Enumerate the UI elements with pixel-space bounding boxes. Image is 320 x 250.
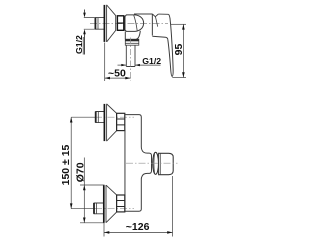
- outlet thread collar: [125, 39, 139, 45]
- lever top edge: [158, 13, 168, 15]
- 95 dimension: [172, 77, 186, 79]
- svg-text:95: 95: [173, 44, 185, 56]
- 150 +/- 15 dimension: [70, 117, 72, 209]
- centerline of inlet axis: [90, 23, 168, 25]
- mixer body (cartridge dome, side view): [125, 15, 144, 32]
- ~126 dimension: [104, 176, 173, 237]
- G1/2 outlet label and arrows: [118, 64, 127, 66]
- escutcheon (wall rosette, side view): [103, 5, 105, 42]
- outlet elbow below body: [124, 31, 126, 39]
- handle cap top edge: [134, 13, 152, 15]
- svg-text:G1/2: G1/2: [74, 35, 84, 54]
- G1/2 lower arrow: [84, 34, 86, 55]
- cartridge housing (plan, rounded block): [142, 150, 152, 177]
- handle cap (plan): [159, 153, 174, 174]
- handle hub bottom: [152, 36, 167, 39]
- extension line top (95 dim): [171, 23, 186, 25]
- swivel ring (ellipse): [153, 152, 159, 174]
- diameter 70 dimension: [80, 185, 105, 223]
- svg-text:G1/2: G1/2: [142, 56, 161, 66]
- bottom inlet pipe: [94, 203, 104, 214]
- body bar: [125, 115, 142, 150]
- hex nut: [117, 16, 123, 30]
- svg-text:~126: ~126: [126, 221, 150, 233]
- ~50 dimension: [104, 43, 106, 82]
- outlet centerline: [130, 38, 132, 81]
- lever blade: [168, 14, 173, 76]
- top inlet centerline: [71, 116, 95, 118]
- bottom hex nut: [117, 195, 125, 212]
- bottom inlet centerline: [71, 208, 95, 210]
- main centerline: [126, 162, 178, 164]
- top hex nut: [117, 113, 125, 130]
- svg-text:Ø70: Ø70: [75, 162, 87, 182]
- G1/2 pipe dimension extensions: [84, 18, 95, 30]
- handle hub rear edge: [151, 14, 153, 36]
- outlet pipe: [126, 45, 135, 66]
- body interior highlight line: [134, 15, 138, 31]
- top escutcheon: [103, 104, 105, 141]
- svg-text:150 ± 15: 150 ± 15: [60, 144, 72, 185]
- G1/2 upper arrow: [84, 10, 86, 13]
- top inlet pipe: [95, 112, 104, 123]
- svg-text:~50: ~50: [108, 67, 126, 79]
- handle notch: [152, 14, 158, 17]
- bottom escutcheon: [103, 185, 105, 223]
- wall pipe (threaded inlet): [95, 18, 104, 30]
